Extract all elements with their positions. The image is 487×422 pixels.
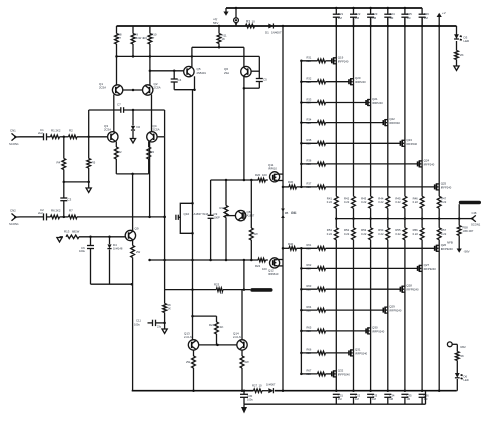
wire to Q9 base (79, 236, 126, 238)
resistor R14 (Q3 emitter) (114, 142, 122, 174)
svg-text:100P: 100P (214, 216, 220, 220)
svg-text:56V: 56V (213, 21, 218, 25)
capacitor C35 (V- bypass) (401, 394, 412, 405)
svg-text:Q3: Q3 (104, 124, 108, 128)
wire (326, 247, 435, 249)
wire VAS vertical x192.5 (192, 90, 194, 340)
svg-text:Q26: Q26 (441, 243, 447, 247)
svg-text:IRFP9240: IRFP9240 (338, 372, 351, 376)
svg-text:220: 220 (307, 308, 312, 312)
svg-text:0.22: 0.22 (413, 200, 419, 204)
resistor R21 SW (x251) (249, 180, 258, 260)
svg-text:C33: C33 (372, 394, 378, 398)
wire (60, 216, 69, 218)
wire Q1 to Q3 (113, 95, 115, 133)
svg-text:0.22: 0.22 (344, 200, 350, 204)
svg-text:Q21: Q21 (372, 97, 378, 101)
wire (326, 186, 435, 188)
capacitor C7 (in frame line) (117, 103, 124, 113)
svg-text:5W: 5W (254, 232, 259, 236)
mosfet Q31 IRFP9240 (349, 347, 368, 356)
svg-text:0.22: 0.22 (441, 232, 447, 236)
resistor R57 0.22 (P source) (437, 228, 446, 240)
svg-text:IRF9610: IRF9610 (268, 272, 279, 276)
wire to node A (60, 136, 69, 138)
svg-text:R23: R23 (214, 283, 220, 287)
svg-text:C9: C9 (214, 212, 218, 216)
mosfet Q28 IRFP9240 (400, 284, 419, 293)
wire C5 bottom (258, 82, 260, 89)
svg-text:Q23: Q23 (406, 138, 412, 142)
svg-text:2K2: 2K2 (56, 129, 61, 133)
mosfet Q32 IRFP9240 (332, 368, 351, 377)
svg-text:IRFP240: IRFP240 (372, 101, 383, 105)
wire (326, 163, 418, 165)
wire output to NFB node (458, 217, 461, 220)
svg-text:R54: R54 (378, 228, 384, 232)
wire y316 link (193, 315, 217, 317)
zener ZD1 ZD2 (gate protect) (281, 209, 296, 219)
wire cap bus y404 (244, 403, 426, 405)
svg-text:R45: R45 (395, 197, 401, 201)
capacitor C25 100n (rail bypass) (401, 7, 412, 26)
svg-text:NFB: NFB (447, 241, 453, 245)
capacitor C32 (V- bypass) (350, 394, 361, 405)
capacitor C3 (node A to line2) (60, 182, 71, 217)
resistor R34 220 (gate) (307, 117, 326, 124)
capacitor C24 100n (rail bypass) (384, 7, 395, 26)
wire N gate line 7 (283, 186, 289, 188)
svg-text:R27: R27 (252, 384, 258, 388)
wire C4 bottom link (174, 89, 194, 91)
wire P gate line 6 (301, 352, 317, 354)
inductor L2 (459, 201, 481, 204)
svg-text:220: 220 (307, 351, 312, 355)
svg-text:IRFP240: IRFP240 (389, 121, 400, 125)
svg-text:47: 47 (151, 36, 155, 40)
svg-text:100: 100 (262, 267, 267, 271)
svg-text:Q25: Q25 (441, 181, 447, 185)
svg-text:R41: R41 (327, 197, 333, 201)
svg-text:100: 100 (262, 173, 267, 177)
svg-text:R63: R63 (307, 284, 312, 288)
svg-text:R32: R32 (307, 77, 312, 81)
wire (326, 288, 401, 290)
wire bias line y56 (117, 55, 260, 57)
inductor L1 (250, 288, 272, 292)
svg-text:C11: C11 (136, 319, 141, 323)
wire output column 1 (335, 17, 337, 196)
wire P gate line 3 (301, 288, 317, 290)
wire V- rail right (275, 390, 457, 392)
wire LED to rail (456, 379, 458, 391)
wire (326, 267, 418, 269)
mosfet Q30 IRFP9240 (366, 325, 385, 334)
svg-text:0.22: 0.22 (327, 200, 333, 204)
svg-text:Q14: Q14 (233, 332, 239, 336)
svg-text:47: 47 (118, 36, 122, 40)
svg-text:IRFP240: IRFP240 (406, 142, 417, 146)
svg-text:A1837: A1837 (247, 214, 255, 218)
svg-text:D4: D4 (113, 243, 117, 247)
svg-text:2CSA: 2CSA (99, 86, 106, 90)
svg-text:2K2: 2K2 (56, 209, 61, 213)
svg-text:Q27: Q27 (424, 263, 430, 267)
resistor R31 220 (gate) (307, 56, 326, 63)
wire (47, 136, 51, 138)
wire output column 3 (370, 17, 372, 196)
svg-text:10: 10 (220, 291, 224, 295)
ground (center) (130, 139, 135, 144)
resistor R7 (69, 209, 78, 219)
svg-text:2CSA: 2CSA (153, 127, 160, 131)
svg-text:CN1: CN1 (10, 129, 16, 133)
wire fb bottom link (91, 283, 132, 285)
svg-text:Q32: Q32 (338, 368, 344, 372)
resistor R42 0.22 (N source) (344, 196, 355, 208)
resistor R9 561W (col 133) (131, 26, 147, 56)
resistor R35 220 (gate) (307, 138, 326, 145)
mosfet Q19 IRFP240 (332, 55, 349, 64)
wire (326, 60, 332, 62)
svg-text:1N4007: 1N4007 (271, 31, 282, 35)
wire tail down to Q9 (132, 174, 134, 231)
svg-text:10: 10 (252, 19, 256, 23)
svg-text:R6: R6 (51, 209, 55, 213)
wire base frame y110 (89, 109, 121, 111)
wire (326, 352, 350, 354)
wire line y260 (150, 259, 258, 261)
resistor R15 (Q4 emitter) (147, 142, 155, 174)
wire Q9 emitter (132, 240, 134, 245)
svg-text:0.22: 0.22 (441, 200, 447, 204)
resistor R23 10 (zobel) (214, 283, 224, 296)
svg-text:220: 220 (307, 101, 312, 105)
diode D4 1N4148 (107, 237, 122, 284)
capacitor C2 (38, 208, 47, 220)
svg-text:1M: 1M (338, 16, 343, 20)
capacitor C30 (V- bypass) (240, 389, 253, 404)
svg-text:R55: R55 (395, 228, 401, 232)
capacitor C4 (171, 71, 182, 90)
svg-text:10: 10 (259, 384, 263, 388)
ground (top right) (454, 60, 459, 71)
resistor R46 0.22 (N source) (413, 196, 424, 208)
LED D6 (455, 373, 469, 382)
diode D1 1N4007 (265, 23, 282, 34)
svg-text:Q1: Q1 (99, 82, 103, 86)
label bias Q10 (184, 212, 209, 216)
svg-text:0.22: 0.22 (344, 232, 350, 236)
resistor R61 220 (gate) (307, 243, 326, 250)
mosfet Q27 IRFP9240 (418, 263, 437, 272)
svg-text:Q2: Q2 (154, 82, 158, 86)
svg-text:R52: R52 (344, 228, 350, 232)
wire output column 7 (438, 26, 440, 196)
transistor Q4 2SA970 (147, 124, 160, 142)
svg-text:100u: 100u (134, 323, 140, 327)
svg-text:Q28: Q28 (406, 284, 412, 288)
svg-text:0.22: 0.22 (361, 232, 367, 236)
wire Q6 base right link (251, 70, 260, 72)
svg-text:0.22: 0.22 (395, 200, 401, 204)
svg-text:2-CLN: 2-CLN (233, 335, 241, 339)
svg-text:220: 220 (307, 247, 312, 251)
svg-text:220: 220 (307, 287, 312, 291)
node rail/VAS junction (282, 25, 285, 28)
mosfet Q29 IRFP9240 (383, 305, 402, 314)
ground (input) (86, 181, 91, 193)
svg-text:+V: +V (442, 11, 446, 15)
wire N gate line 1 (301, 60, 317, 62)
svg-text:100u: 100u (247, 398, 253, 402)
resistor R13 (64, 230, 80, 239)
wire V- rail (132, 390, 254, 392)
svg-text:LED: LED (464, 39, 470, 43)
svg-text:2K: 2K (461, 354, 465, 358)
resistor R11 1K (rail to y47) (217, 25, 227, 48)
svg-text:0.22: 0.22 (395, 232, 401, 236)
svg-text:R43: R43 (361, 197, 367, 201)
svg-text:1N4148: 1N4148 (113, 247, 123, 251)
svg-text:1K: 1K (222, 37, 226, 41)
svg-text:R34: R34 (307, 117, 312, 121)
wire to Q3 base (77, 136, 108, 138)
wire output column 2 (353, 17, 355, 196)
power port +V arrow (223, 8, 228, 16)
svg-text:IRFP9240: IRFP9240 (406, 288, 419, 292)
svg-text:IRFP240: IRFP240 (338, 59, 349, 63)
svg-text:R46: R46 (413, 197, 419, 201)
svg-text:R56: R56 (413, 228, 419, 232)
wire +V input bus (226, 7, 422, 9)
resistor R47 0.22 (N source) (437, 196, 446, 208)
capacitor C8 (bias) (176, 215, 180, 220)
svg-text:1M: 1M (355, 16, 360, 20)
resistor R33 220 (gate) (307, 97, 326, 104)
svg-text:R24: R24 (209, 323, 215, 327)
svg-text:R1: R1 (51, 129, 55, 133)
resistor R66 220 (gate) (307, 348, 326, 355)
resistor R30 (N feed) (288, 180, 297, 189)
capacitor C1 input (38, 128, 47, 140)
svg-text:C7: C7 (117, 103, 121, 107)
svg-text:681W: 681W (72, 230, 80, 234)
svg-text:R19: R19 (220, 206, 226, 210)
ground (bottom) (241, 404, 247, 413)
svg-text:2N5401: 2N5401 (197, 71, 207, 75)
mosfet Q20 IRFP240 (349, 76, 366, 85)
wire (326, 102, 367, 104)
wire x164.6 vertical (164, 137, 166, 290)
svg-text:IRFP240: IRFP240 (355, 80, 366, 84)
diode D5 1N4007 (266, 383, 276, 394)
resistor R43 0.22 (N source) (361, 196, 372, 208)
wire rail right end down (456, 26, 458, 35)
svg-text:R66: R66 (307, 348, 312, 352)
wire N gate bus (300, 61, 302, 187)
wire gnd link (64, 181, 89, 183)
capacitor C33 (V- bypass) (367, 394, 378, 405)
svg-text:1M: 1M (389, 16, 394, 20)
wire Q4 base link (158, 136, 165, 138)
resistor R28 2K (fb ac) (163, 290, 171, 329)
svg-text:23u: 23u (157, 326, 162, 329)
power port +V to Q17 column (437, 11, 446, 26)
svg-text:Q8: Q8 (247, 210, 251, 214)
svg-text:R9: R9 (134, 33, 138, 37)
capacitor C36 (V- bypass) (419, 394, 430, 405)
svg-text:IRFP9240: IRFP9240 (355, 351, 368, 355)
connector CON3 output (471, 211, 481, 226)
svg-text:IRFP9240: IRFP9240 (389, 309, 402, 313)
svg-text:2W: 2W (136, 250, 141, 254)
capacitor C34 (V- bypass) (384, 394, 395, 405)
wire Q13-Q14 base link (198, 344, 237, 346)
svg-text:IRFP9240: IRFP9240 (441, 247, 454, 251)
connector port (bottom right) (447, 342, 457, 347)
svg-text:R31: R31 (307, 56, 312, 60)
resistor R45 0.22 (N source) (395, 196, 406, 208)
svg-text:10W 4R7: 10W 4R7 (463, 229, 474, 233)
svg-text:R36: R36 (307, 159, 312, 163)
wire P gate line 2 (301, 267, 317, 269)
svg-text:R51: R51 (327, 228, 333, 232)
resistor R36 220 (gate) (307, 159, 326, 166)
svg-text:SCON1: SCON1 (471, 223, 481, 227)
resistor R62 220 (gate) (307, 263, 326, 270)
wire (326, 373, 332, 375)
resistor R2 (69, 129, 78, 139)
svg-text:1N4007: 1N4007 (266, 383, 276, 387)
mosfet Q21 IRFP240 (366, 97, 383, 106)
wire Q2 to Q4 (151, 95, 153, 133)
svg-text:0.22: 0.22 (361, 200, 367, 204)
svg-text:2CSA: 2CSA (154, 86, 161, 90)
resistor R24 1K (209, 316, 224, 345)
svg-text:LED: LED (464, 378, 469, 382)
capacitor C31 (V- bypass) (333, 394, 344, 405)
svg-text:IRFP9240: IRFP9240 (372, 329, 385, 333)
mosfet Q22 IRFP240 (383, 117, 400, 126)
mosfet Q25 IRFP240 (435, 181, 452, 190)
wire x210.6 with C9 (208, 180, 220, 260)
svg-text:220: 220 (307, 267, 312, 271)
svg-text:R5: R5 (92, 161, 96, 165)
resistor R62 2K (455, 344, 466, 373)
wire line2 to x=164.6 (77, 216, 165, 218)
wire N gate line 2 (301, 81, 317, 83)
svg-text:Q13: Q13 (184, 332, 190, 336)
svg-text:220: 220 (307, 142, 312, 146)
svg-text:R47: R47 (441, 197, 447, 201)
svg-text:C30: C30 (247, 394, 253, 398)
svg-text:C34: C34 (389, 394, 395, 398)
svg-text:R44: R44 (378, 197, 384, 201)
svg-text:220: 220 (307, 121, 312, 125)
svg-text:A1837 W.M: A1837 W.M (194, 212, 209, 216)
wire P gate bus (300, 248, 302, 374)
svg-text:2K: 2K (460, 53, 464, 57)
resistor R63 220 (gate) (307, 284, 326, 291)
LED D3 (454, 34, 469, 43)
resistor R19 (x226) (220, 180, 228, 260)
wire (326, 330, 367, 332)
svg-text:220: 220 (307, 59, 312, 63)
wire Q5 emitter down (194, 76, 196, 89)
resistor R54 0.22 (P source) (378, 228, 389, 240)
wire input line 2 (20, 216, 43, 218)
svg-text:R42: R42 (344, 197, 350, 201)
svg-text:C4: C4 (178, 78, 182, 82)
svg-text:2W: 2W (186, 360, 191, 364)
resistor R37 220 (gate) (307, 182, 326, 189)
svg-text:Q10: Q10 (184, 212, 190, 216)
svg-text:R37: R37 (307, 182, 312, 186)
svg-text:0.22: 0.22 (378, 232, 384, 236)
svg-text:1K: 1K (220, 325, 224, 329)
resistor R65 220 (gate) (307, 326, 326, 333)
svg-text:R30: R30 (288, 180, 294, 184)
svg-text:R41: R41 (292, 211, 298, 215)
svg-text:R64: R64 (307, 305, 312, 309)
resistor R8 47 (col 116.5) (115, 26, 122, 56)
wire (326, 142, 401, 144)
resistor R5 (fb shunt) (87, 137, 96, 182)
svg-text:100u: 100u (79, 249, 85, 253)
svg-text:R53: R53 (361, 228, 367, 232)
transistor Q5 2N5401 (VAS left) (184, 47, 207, 77)
wire output column 5 (404, 17, 406, 196)
svg-text:D1: D1 (265, 31, 269, 35)
wire output node row (336, 218, 459, 220)
wire P gate line 5 (301, 330, 317, 332)
svg-text:Q4: Q4 (153, 124, 157, 128)
wire x243.9 y260-289.6 (243, 260, 245, 290)
transistor Q14 2SC2240 (233, 290, 247, 350)
wire tail join (116, 173, 148, 175)
wire output feed y289.6 (165, 289, 217, 291)
svg-text:R35: R35 (307, 138, 312, 142)
svg-text:2u2: 2u2 (38, 211, 43, 215)
transistor Q1 2SC2240 (99, 56, 123, 95)
resistor R51 0.22 (P source) (327, 228, 338, 240)
resistor R4 (node A down) (57, 137, 66, 182)
mosfet Q12 IRF9610 (P driver) (268, 258, 283, 276)
wire V+ rail (117, 25, 457, 27)
wire N gate line 4 (301, 122, 317, 124)
svg-text:0.22: 0.22 (378, 200, 384, 204)
svg-text:IRFP240: IRFP240 (441, 185, 452, 189)
svg-text:220: 220 (307, 80, 312, 84)
svg-text:Q24: Q24 (424, 158, 430, 162)
connector CON2 input 2 (9, 209, 20, 227)
wire bias y56 corner down (258, 56, 260, 78)
resistor R16 (Q9 emitter) (131, 246, 141, 285)
wire N gate line 6 (301, 163, 317, 165)
svg-text:Q6: Q6 (224, 67, 228, 71)
resistor R25 (Q13 emitter) (186, 350, 195, 391)
svg-text:R61: R61 (307, 243, 312, 247)
svg-text:C31: C31 (338, 394, 344, 398)
wire Q5 base line (150, 70, 184, 72)
svg-text:R40: R40 (288, 242, 294, 246)
svg-text:0.22: 0.22 (327, 232, 333, 236)
capacitor C5 (256, 78, 267, 82)
resistor R27 10 (V- rail) (252, 384, 262, 393)
svg-text:IRF610: IRF610 (268, 167, 277, 171)
svg-text:-56V: -56V (464, 250, 470, 254)
